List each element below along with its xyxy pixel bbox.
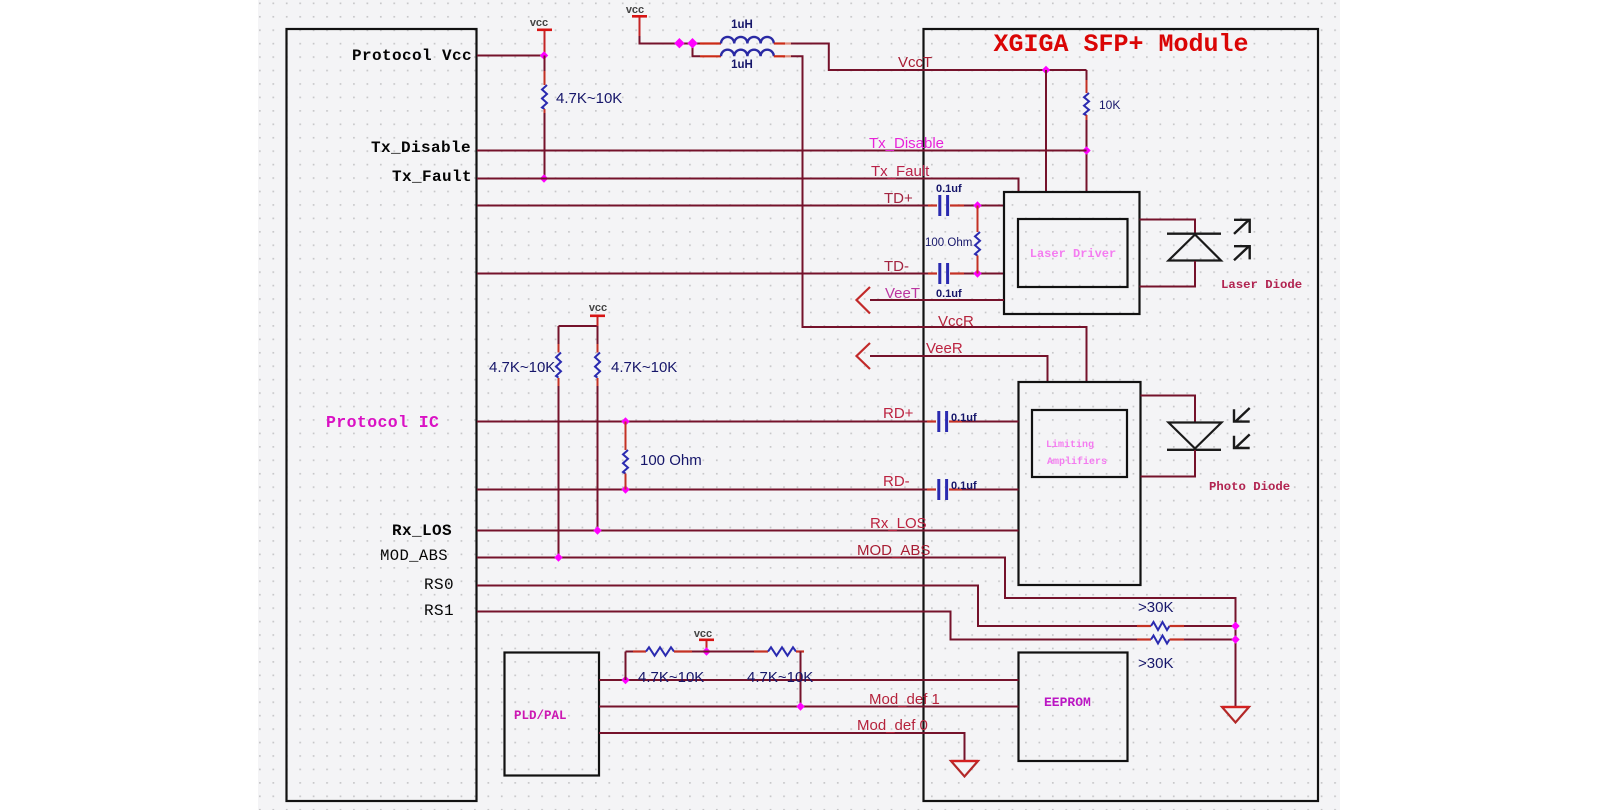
svg-text:VeeR: VeeR xyxy=(926,340,963,357)
node junction Tx_Disable / R2 xyxy=(1082,146,1090,154)
wire L2 to VccR rail xyxy=(791,56,1087,381)
svg-text:Rx_LOS: Rx_LOS xyxy=(392,522,452,540)
svg-text:XGIGA SFP+ Module: XGIGA SFP+ Module xyxy=(993,30,1248,59)
resistor R6 4.7K~10K (Rx_LOS pull-up) xyxy=(595,326,600,531)
resistor R10 4.7K~10K (Mod_def0 pull-up) xyxy=(707,647,805,706)
node junction VccT / Laser Driver xyxy=(1042,66,1050,74)
svg-text:TD-: TD- xyxy=(884,258,909,275)
wire laser diode anode (top) xyxy=(1140,220,1196,233)
wire VeeT xyxy=(870,299,1004,301)
svg-text:4.7K~10K: 4.7K~10K xyxy=(556,90,622,107)
svg-text:VeeT: VeeT xyxy=(885,285,920,302)
svg-text:VccR: VccR xyxy=(938,313,974,330)
laser diode D1 xyxy=(1167,234,1221,261)
wire VeeR xyxy=(870,356,1048,381)
svg-text:0.1uf: 0.1uf xyxy=(936,183,962,195)
capacitor C4 0.1uf (RD-) xyxy=(927,479,1019,500)
capacitor C3 0.1uf (RD+) xyxy=(927,411,1019,432)
svg-text:Photo Diode: Photo Diode xyxy=(1209,480,1290,494)
node junction Mod_def0 / pull-up xyxy=(796,702,804,710)
node junction RD- / R4 xyxy=(621,485,629,493)
wire TD+ xyxy=(477,205,928,207)
node junction (VCC rail a) xyxy=(674,38,684,48)
label Limiting Amplifiers xyxy=(1046,439,1107,468)
svg-text:PLD/PAL: PLD/PAL xyxy=(514,709,567,723)
svg-text:0.1uf: 0.1uf xyxy=(951,412,977,424)
resistor R3 100 Ohm (TD termination) xyxy=(975,206,980,274)
node junction RS0 / ground rail xyxy=(1231,622,1239,630)
svg-text:RD-: RD- xyxy=(883,473,910,490)
resistor R7 >30K (RS0) xyxy=(1137,622,1236,630)
wire Tx_Fault xyxy=(477,179,1019,192)
svg-text:Mod_def 1: Mod_def 1 xyxy=(869,691,940,708)
svg-text:Tx_Fault: Tx_Fault xyxy=(392,168,472,186)
PLD/PAL box U3 xyxy=(505,653,600,776)
capacitor C2 0.1uf (TD-) xyxy=(928,263,1004,284)
inductor L1 1uH (VccT filter) xyxy=(700,37,791,44)
laser light arrow 1 xyxy=(1234,220,1250,234)
capacitor C1 0.1uf (TD+) xyxy=(928,195,1004,216)
svg-text:Mod_def 0: Mod_def 0 xyxy=(857,717,928,734)
svg-text:vcc: vcc xyxy=(626,4,644,16)
svg-text:VccT: VccT xyxy=(898,54,932,71)
svg-text:MOD_ABS: MOD_ABS xyxy=(857,542,930,559)
wire Rx_LOS xyxy=(477,530,1019,532)
svg-text:RS0: RS0 xyxy=(424,576,454,594)
svg-text:Rx_LOS: Rx_LOS xyxy=(870,515,927,532)
node junction VCC / pull-up rail xyxy=(702,647,710,655)
node junction TD- / R3 xyxy=(973,269,981,277)
wire TD- xyxy=(477,273,928,275)
wire MOD_ABS xyxy=(477,558,1236,707)
port VeeR arrow xyxy=(857,343,871,369)
svg-text:0.1uf: 0.1uf xyxy=(936,288,962,300)
op-amp U2 Limiting Amplifiers outer box xyxy=(1019,382,1141,585)
wire laser diode cathode (bottom) xyxy=(1140,261,1196,287)
svg-text:10K: 10K xyxy=(1099,98,1120,112)
ground symbol (RS/MOD_ABS rail) xyxy=(1222,707,1249,723)
op-amp U1 Laser Driver outer box xyxy=(1004,192,1140,314)
wire VccT down to Laser Driver xyxy=(1045,70,1047,191)
svg-text:vcc: vcc xyxy=(694,628,712,640)
photo diode D2 xyxy=(1167,423,1222,450)
wire Mod_def 1 (PLD to EEPROM) xyxy=(599,679,1019,681)
svg-text:Amplifiers: Amplifiers xyxy=(1047,456,1107,468)
svg-text:>30K: >30K xyxy=(1138,599,1173,616)
resistor R5 4.7K~10K (MOD_ABS pull-up) xyxy=(556,326,598,558)
wire RS1 xyxy=(477,612,1137,640)
resistor R8 >30K (RS1) xyxy=(1137,636,1236,644)
XGIGA SFP+ module box xyxy=(924,29,1319,801)
wire RD+ xyxy=(477,421,927,423)
svg-text:RS1: RS1 xyxy=(424,602,454,620)
resistor R9 4.7K~10K (Mod_def1 pull-up) xyxy=(626,647,707,680)
host connector box (left) xyxy=(287,29,477,801)
schematic sheet background xyxy=(258,0,1340,810)
resistor R2 10K (Tx_Disable pull-up) xyxy=(1084,70,1089,191)
svg-text:RD+: RD+ xyxy=(883,405,914,422)
svg-text:Tx_Fault: Tx_Fault xyxy=(871,163,930,180)
power symbol VCC (filter inductors) xyxy=(626,4,679,44)
resistor R4 100 Ohm (RD termination) xyxy=(623,422,628,490)
wire RD- xyxy=(477,489,927,491)
svg-text:4.7K~10K: 4.7K~10K xyxy=(638,669,704,686)
node junction R1 / Tx_Fault xyxy=(540,174,548,182)
node junction RS1 / ground rail xyxy=(1231,635,1239,643)
photo light arrow 1 xyxy=(1234,408,1250,422)
svg-text:>30K: >30K xyxy=(1138,655,1173,672)
node junction Mod_def1 / pull-up xyxy=(621,676,629,684)
wire Protocol Vcc xyxy=(477,55,544,57)
svg-text:100 Ohm: 100 Ohm xyxy=(640,452,702,469)
node junction TD+ / R3 xyxy=(973,201,981,209)
op-amp U2 Limiting Amplifiers inner box xyxy=(1032,410,1127,477)
svg-text:Protocol Vcc: Protocol Vcc xyxy=(352,47,472,65)
svg-text:Tx_Disable: Tx_Disable xyxy=(371,139,471,157)
svg-text:MOD_ABS: MOD_ABS xyxy=(380,547,448,565)
svg-text:EEPROM: EEPROM xyxy=(1044,695,1091,710)
svg-text:Laser Diode: Laser Diode xyxy=(1221,278,1302,292)
wire Mod_def 0 (PLD to EEPROM) xyxy=(599,706,1019,708)
svg-text:TD+: TD+ xyxy=(884,190,913,207)
port VeeT arrow xyxy=(857,287,871,314)
wire RS0 xyxy=(477,586,1137,627)
node junction (VCC rail b) xyxy=(687,38,697,48)
ground symbol (Mod_def 0) xyxy=(951,761,978,777)
wire photo diode anode (top) xyxy=(1141,396,1196,422)
svg-text:vcc: vcc xyxy=(530,17,548,29)
svg-text:4.7K~10K: 4.7K~10K xyxy=(489,359,555,376)
svg-text:Tx_Disable: Tx_Disable xyxy=(869,135,944,152)
svg-text:1uH: 1uH xyxy=(731,19,753,31)
wire Tx_Disable xyxy=(477,150,1087,152)
EEPROM box U4 xyxy=(1019,653,1128,762)
power symbol VCC (pull-up R1) xyxy=(530,17,552,56)
op-amp U1 Laser Driver inner box xyxy=(1018,219,1128,287)
svg-text:vcc: vcc xyxy=(589,302,607,314)
svg-text:1uH: 1uH xyxy=(731,59,753,71)
node junction Protocol Vcc / R1 xyxy=(540,51,548,59)
node junction RD+ / R4 xyxy=(621,417,629,425)
svg-text:4.7K~10K: 4.7K~10K xyxy=(747,669,813,686)
svg-text:100 Ohm: 100 Ohm xyxy=(925,237,972,249)
wire VCC rail to inductors xyxy=(679,44,700,57)
svg-text:Laser Driver: Laser Driver xyxy=(1030,247,1116,261)
node junction MOD_ABS / R5 xyxy=(554,553,562,561)
laser light arrow 2 xyxy=(1234,246,1250,260)
node junction Rx_LOS / R6 xyxy=(593,526,601,534)
resistor R1 4.7K~10K (pull-up Tx_Fault) xyxy=(542,56,547,179)
wire PLD ground pin xyxy=(599,733,965,760)
photo light arrow 2 xyxy=(1234,434,1250,448)
inductor L2 1uH (VccR filter) xyxy=(700,50,791,57)
power symbol VCC (bottom pull-ups) xyxy=(694,628,714,652)
svg-text:0.1uf: 0.1uf xyxy=(951,480,977,492)
svg-text:4.7K~10K: 4.7K~10K xyxy=(611,359,677,376)
svg-text:Protocol IC: Protocol IC xyxy=(326,413,439,432)
power symbol VCC (mid pull-ups) xyxy=(589,302,607,326)
wire L1 to VccT xyxy=(791,44,1087,71)
svg-text:Limiting: Limiting xyxy=(1046,439,1094,451)
wire photo diode cathode (bottom) xyxy=(1141,450,1196,477)
